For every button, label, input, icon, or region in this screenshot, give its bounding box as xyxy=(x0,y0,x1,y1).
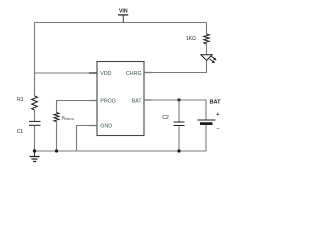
wire top rail VIN xyxy=(35,22,207,24)
pin stub PROG xyxy=(89,100,97,102)
capacitor C1 xyxy=(17,121,41,135)
wire battery to ground rail xyxy=(205,125,207,151)
svg-text:C2: C2 xyxy=(162,115,169,121)
pin stub VDD xyxy=(89,72,97,74)
wire C2 to ground rail xyxy=(178,126,180,151)
svg-text:−: − xyxy=(216,126,220,133)
node junction C2 bottom xyxy=(177,149,180,152)
node junction C2 top xyxy=(177,98,180,101)
svg-text:VDD: VDD xyxy=(100,71,111,77)
resistor R1 xyxy=(17,96,37,110)
ground xyxy=(30,151,40,162)
pin stub BAT xyxy=(144,99,152,101)
resistor Rprog xyxy=(54,113,75,122)
battery BT1 xyxy=(198,100,222,133)
svg-text:GND: GND xyxy=(100,123,112,129)
pin stub GND xyxy=(89,125,97,127)
wire PROG to Rprog xyxy=(57,101,98,113)
svg-text:R1: R1 xyxy=(17,97,24,103)
wire right chain top xyxy=(206,23,208,35)
wire BAT to battery xyxy=(144,100,206,120)
capacitor C2 xyxy=(162,115,184,126)
svg-text:PROG: PROG xyxy=(65,117,75,121)
svg-text:+: + xyxy=(216,112,220,118)
wire ground rail xyxy=(35,150,207,152)
wire C1 to ground rail xyxy=(34,126,36,151)
wire GND to ground rail xyxy=(77,126,98,152)
svg-text:BAT: BAT xyxy=(132,98,143,104)
pin stub CHRG xyxy=(144,72,152,74)
svg-text:VIN: VIN xyxy=(119,9,128,15)
node VIN terminal xyxy=(118,9,128,23)
resistor R2 1KΩ xyxy=(186,34,209,44)
svg-text:CHRG: CHRG xyxy=(126,71,142,77)
wire C2 drop xyxy=(178,100,180,122)
node junction ground left xyxy=(33,149,36,152)
node junction Rprog bottom xyxy=(55,149,58,152)
wire R1 to C1 xyxy=(34,110,36,121)
wire VDD feed xyxy=(35,72,98,74)
svg-text:C1: C1 xyxy=(17,129,24,135)
wire Rprog to ground rail xyxy=(56,122,58,152)
svg-text:BAT: BAT xyxy=(210,100,222,106)
svg-text:PROG: PROG xyxy=(100,98,116,104)
wire CHRG to LED chain xyxy=(144,61,207,73)
wire left vertical xyxy=(34,23,36,97)
LED D1 xyxy=(201,55,217,63)
wire R2 to LED xyxy=(206,44,208,55)
IC U1 charger xyxy=(97,62,144,136)
svg-text:1KΩ: 1KΩ xyxy=(186,36,196,42)
